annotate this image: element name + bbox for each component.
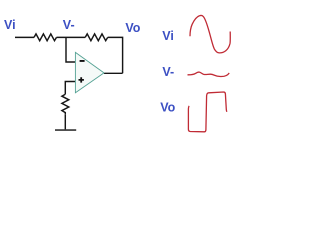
ground [55, 129, 76, 131]
svg-text:V-: V- [63, 18, 75, 32]
svg-text:Vi: Vi [4, 18, 16, 32]
waveform Vo square [188, 92, 226, 132]
resistor R1 [34, 34, 57, 41]
svg-text:Vi: Vi [162, 29, 174, 43]
resistor R2 [85, 34, 108, 41]
wire op-amp output [104, 72, 123, 74]
svg-text:V-: V- [162, 65, 174, 79]
wire V- node to inverting input [66, 37, 75, 62]
resistor R3 [62, 94, 69, 114]
op-amp U1 [75, 52, 104, 92]
svg-text:Vo: Vo [125, 21, 140, 35]
svg-text:Vo: Vo [160, 100, 175, 114]
wire R2 to Vo corner [108, 37, 123, 73]
waveform Vi sine [190, 16, 230, 53]
wire R3 to ground [64, 114, 66, 130]
waveform V- ripple [188, 72, 230, 76]
wire non-inverting input [65, 82, 75, 95]
wire R1 to V- node [57, 36, 86, 38]
wire Vi input [15, 36, 34, 38]
